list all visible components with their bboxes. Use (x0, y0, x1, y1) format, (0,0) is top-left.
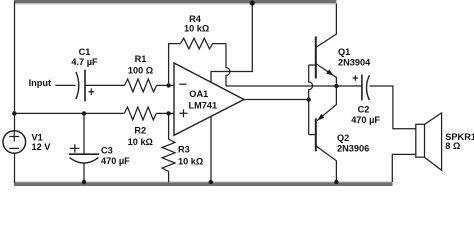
wire R1 to op-amp (157, 84, 174, 86)
svg-text:470 µF: 470 µF (351, 115, 380, 125)
node A (V1 / input bus junction) (12, 111, 16, 115)
node C (non-inverting input) (166, 111, 170, 115)
voltage source V1 (3, 131, 26, 154)
wire C2 to speaker (370, 86, 416, 129)
svg-text:Q2: Q2 (337, 133, 349, 143)
svg-text:R3: R3 (178, 144, 190, 154)
resistor R1 (125, 79, 157, 92)
wire base bus with hop over feedback wire (309, 65, 313, 135)
transistor Q2 (315, 118, 317, 151)
svg-text:C2: C2 (358, 105, 370, 115)
speaker SPKR1 (416, 124, 425, 157)
svg-text:C3: C3 (101, 146, 113, 156)
svg-text:V1: V1 (32, 132, 43, 142)
node C3 top (82, 111, 86, 115)
wire lower input bus (15, 112, 125, 114)
op-amp U1 triangle (174, 63, 244, 135)
wire left border bottom (V1 to ground) (14, 153, 16, 183)
resistor R4 (181, 38, 227, 49)
svg-text:2N3906: 2N3906 (337, 143, 369, 153)
node Q2 collector ground (334, 180, 338, 184)
wire Q1 base stub (309, 64, 316, 66)
svg-text:R4: R4 (189, 14, 202, 24)
svg-text:R1: R1 (135, 54, 147, 64)
wire R4 down with hop over V+ feed (226, 44, 230, 86)
op-amp minus sign (179, 83, 186, 85)
op-amp plus sign (180, 109, 188, 117)
op-amp V- pin to ground (210, 116, 212, 183)
capacitor C3 (83, 113, 85, 153)
capacitor C2 (353, 75, 358, 80)
node output emitters (334, 84, 338, 88)
svg-text:100 Ω: 100 Ω (128, 65, 153, 75)
wire feedback to output node (226, 85, 362, 87)
svg-text:LM741: LM741 (189, 101, 218, 111)
wire speaker bottom to ground (392, 154, 416, 182)
svg-text:R2: R2 (134, 126, 146, 136)
node V- pin ground (209, 180, 213, 184)
capacitor C1 (76, 72, 79, 99)
transistor Q1 (315, 37, 317, 79)
node output / base bus (307, 97, 311, 101)
wire op-amp output (244, 99, 309, 101)
svg-text:2N3904: 2N3904 (338, 57, 371, 67)
node C3 bottom (82, 180, 86, 184)
wire feedback riser (169, 44, 181, 86)
wire V+ feed to op-amp (211, 2, 252, 83)
svg-text:12 V: 12 V (32, 142, 52, 152)
svg-text:470 µF: 470 µF (101, 156, 130, 166)
svg-text:Input: Input (29, 78, 51, 88)
wire input (55, 84, 75, 86)
wire R2 to op-amp (156, 112, 174, 114)
svg-text:OA1: OA1 (189, 89, 208, 99)
svg-text:10 kΩ: 10 kΩ (178, 156, 203, 166)
svg-text:4.7 µF: 4.7 µF (71, 57, 98, 67)
node B (inverting input) (166, 83, 170, 87)
wire C1 to R1 (85, 84, 125, 86)
V+ rail (top, gray) (14, 0, 336, 3)
ground rail (bottom, gray) (14, 182, 393, 186)
wire left border top (V+ to V1) (14, 2, 16, 131)
svg-text:8 Ω: 8 Ω (445, 141, 460, 151)
svg-text:10 kΩ: 10 kΩ (128, 137, 153, 147)
node V+ rail tap (250, 0, 255, 5)
svg-text:10 kΩ: 10 kΩ (184, 24, 209, 34)
svg-text:C1: C1 (79, 47, 91, 57)
resistor R2 (124, 107, 156, 120)
svg-text:Q1: Q1 (338, 47, 350, 57)
wire Q2 base stub (309, 134, 316, 136)
resistor R3 (168, 113, 170, 139)
